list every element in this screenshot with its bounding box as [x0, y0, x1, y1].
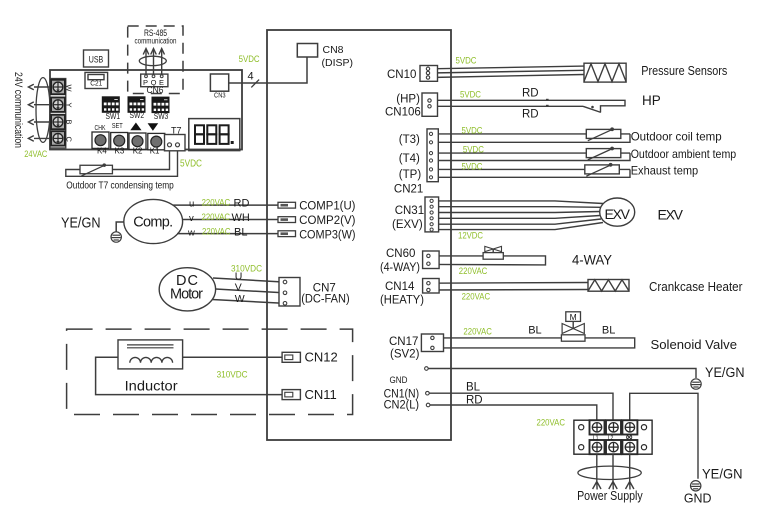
- svg-text:5VDC: 5VDC: [456, 56, 477, 66]
- svg-text:CN14: CN14: [385, 281, 415, 293]
- svg-text:RD: RD: [466, 395, 483, 407]
- svg-text:CN10: CN10: [387, 69, 416, 81]
- svg-text:BL: BL: [234, 226, 247, 238]
- svg-text:Exhaust temp: Exhaust temp: [631, 164, 699, 178]
- svg-text:(TP): (TP): [399, 169, 422, 181]
- svg-text:K3: K3: [115, 147, 125, 156]
- svg-text:5VDC: 5VDC: [463, 145, 484, 155]
- svg-text:(SV2): (SV2): [390, 349, 420, 361]
- svg-text:GND: GND: [390, 375, 408, 385]
- svg-text:K2: K2: [133, 147, 143, 156]
- svg-text:CN12: CN12: [305, 350, 338, 365]
- svg-text:L1: L1: [593, 436, 599, 442]
- svg-text:220VAC: 220VAC: [202, 212, 231, 222]
- svg-text:W: W: [235, 293, 245, 305]
- svg-text:B: B: [65, 120, 74, 125]
- svg-text:K4: K4: [97, 147, 107, 156]
- svg-text:CN31: CN31: [395, 205, 424, 217]
- svg-text:COMP2(V): COMP2(V): [299, 215, 355, 227]
- svg-text:(DISP): (DISP): [322, 57, 354, 69]
- svg-text:RD: RD: [522, 109, 539, 121]
- svg-text:SW1: SW1: [106, 112, 121, 121]
- svg-text:V: V: [235, 282, 242, 294]
- svg-text:WH: WH: [232, 212, 250, 224]
- svg-text:T7: T7: [171, 126, 182, 136]
- svg-text:W: W: [65, 85, 74, 93]
- svg-text:Solenoid Valve: Solenoid Valve: [651, 337, 738, 352]
- svg-text:CN6: CN6: [147, 85, 164, 95]
- svg-text:Outdoor ambient temp: Outdoor ambient temp: [631, 147, 737, 161]
- svg-text:220VAC: 220VAC: [537, 418, 566, 428]
- svg-text:GND: GND: [684, 491, 712, 506]
- svg-text:24V communication: 24V communication: [12, 72, 24, 148]
- svg-text:YE/GN: YE/GN: [702, 466, 743, 482]
- svg-text:5VDC: 5VDC: [180, 158, 202, 170]
- svg-text:YE/GN: YE/GN: [705, 365, 745, 380]
- svg-text:BL: BL: [528, 325, 541, 337]
- svg-text:v: v: [189, 213, 194, 224]
- svg-text:310VDC: 310VDC: [217, 370, 248, 380]
- svg-text:(4-WAY): (4-WAY): [380, 262, 420, 274]
- svg-text:C: C: [65, 137, 74, 143]
- svg-text:SW2: SW2: [130, 111, 145, 120]
- svg-text:BL: BL: [466, 382, 481, 394]
- svg-text:(EXV): (EXV): [392, 219, 423, 231]
- svg-text:CN21: CN21: [394, 184, 423, 196]
- svg-text:220VAC: 220VAC: [463, 327, 492, 337]
- svg-text:(DC-FAN): (DC-FAN): [301, 294, 350, 306]
- svg-text:u: u: [189, 199, 194, 210]
- svg-text:CN11: CN11: [305, 387, 337, 402]
- svg-text:K1: K1: [150, 147, 160, 156]
- svg-text:CN3: CN3: [214, 91, 226, 100]
- svg-text:communication: communication: [135, 37, 177, 46]
- svg-text:Crankcase Heater: Crankcase Heater: [649, 280, 743, 294]
- svg-text:(T4): (T4): [399, 153, 420, 165]
- svg-text:5VDC: 5VDC: [460, 90, 481, 100]
- svg-text:BL: BL: [602, 325, 615, 337]
- svg-text:(HEATY): (HEATY): [380, 295, 424, 307]
- svg-text:Y: Y: [65, 103, 74, 108]
- svg-text:Comp.: Comp.: [133, 215, 173, 231]
- svg-text:4-WAY: 4-WAY: [572, 253, 612, 268]
- svg-text:w: w: [187, 227, 195, 238]
- svg-text:CN8: CN8: [323, 44, 344, 56]
- svg-text:(T3): (T3): [399, 134, 420, 146]
- svg-text:EXV: EXV: [658, 207, 684, 223]
- svg-text:Power Supply: Power Supply: [577, 489, 643, 503]
- svg-text:CHK: CHK: [95, 125, 106, 132]
- svg-text:220VAC: 220VAC: [202, 198, 231, 208]
- svg-text:(HP): (HP): [396, 94, 420, 106]
- svg-text:CN17: CN17: [389, 336, 418, 348]
- svg-text:HP: HP: [642, 93, 661, 108]
- svg-text:Inductor: Inductor: [125, 378, 178, 394]
- svg-text:C21: C21: [90, 81, 102, 88]
- svg-text:M: M: [570, 312, 577, 322]
- svg-text:Outdoor T7 condensing temp: Outdoor T7 condensing temp: [66, 181, 174, 192]
- svg-text:USB: USB: [89, 55, 104, 66]
- svg-text:CN106: CN106: [385, 107, 421, 119]
- svg-text:12VDC: 12VDC: [458, 231, 483, 241]
- svg-text:5VDC: 5VDC: [239, 54, 260, 64]
- svg-text:CN60: CN60: [386, 248, 415, 260]
- svg-text:5VDC: 5VDC: [462, 126, 483, 136]
- svg-text:24VAC: 24VAC: [24, 149, 47, 159]
- svg-text:YE/GN: YE/GN: [61, 215, 101, 232]
- svg-text:220VAC: 220VAC: [202, 226, 231, 236]
- svg-text:5VDC: 5VDC: [462, 162, 483, 172]
- svg-text:L2: L2: [608, 436, 614, 442]
- svg-text:4: 4: [247, 71, 253, 83]
- svg-text:220VAC: 220VAC: [459, 266, 488, 276]
- svg-text:220VAC: 220VAC: [462, 292, 491, 302]
- svg-text:SW3: SW3: [154, 112, 169, 121]
- svg-text:EXV: EXV: [604, 206, 630, 222]
- svg-text:Motor: Motor: [170, 287, 203, 303]
- svg-text:Outdoor coil temp: Outdoor coil temp: [631, 130, 722, 144]
- svg-text:RD: RD: [522, 88, 539, 100]
- svg-text:CN2(L): CN2(L): [384, 400, 420, 412]
- svg-text:Pressure Sensors: Pressure Sensors: [641, 64, 727, 78]
- svg-text:SET: SET: [112, 123, 124, 130]
- svg-text:RD: RD: [234, 198, 250, 210]
- svg-text:COMP3(W): COMP3(W): [299, 230, 355, 242]
- svg-text:COMP1(U): COMP1(U): [299, 201, 355, 213]
